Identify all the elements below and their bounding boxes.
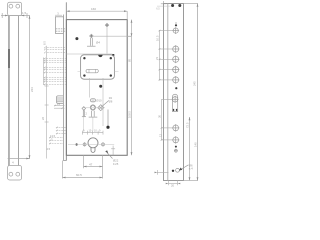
svg-text:1.5: 1.5 [22,11,27,15]
svg-text:244: 244 [30,87,34,92]
svg-text:60.5: 60.5 [76,173,82,177]
svg-text:72.5: 72.5 [186,122,190,128]
svg-text:108.5: 108.5 [127,111,131,118]
svg-text:n.4: n.4 [189,167,193,171]
svg-text:Ø10: Ø10 [96,99,102,103]
svg-text:20: 20 [171,183,175,187]
svg-text:F.25: F.25 [113,162,119,166]
svg-text:30: 30 [158,114,162,118]
svg-text:8.5: 8.5 [43,41,47,45]
svg-text:22: 22 [41,116,45,120]
svg-text:21: 21 [155,56,159,60]
svg-text:47: 47 [89,163,93,167]
svg-text:245: 245 [193,81,197,86]
svg-text:140: 140 [193,142,197,147]
svg-text:85: 85 [127,58,131,62]
svg-text:160: 160 [91,7,96,11]
svg-text:6.5: 6.5 [156,8,160,11]
svg-text:Ø4: Ø4 [96,41,100,45]
svg-text:Ø8: Ø8 [109,99,113,103]
svg-text:10.5: 10.5 [156,35,160,41]
svg-text:12: 12 [159,133,163,137]
svg-text:13.5: 13.5 [50,134,56,138]
svg-text:4.5: 4.5 [47,147,51,151]
